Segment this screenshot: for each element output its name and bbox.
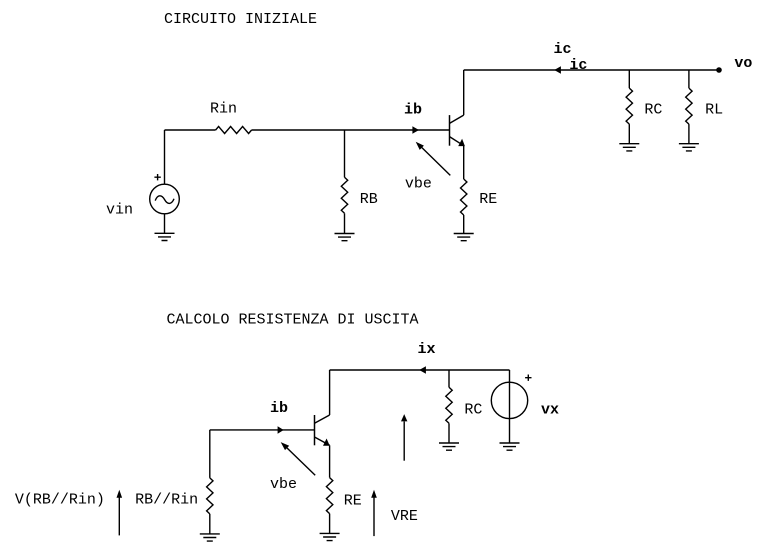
svg-text:CIRCUITO INIZIALE: CIRCUITO INIZIALE <box>164 11 317 28</box>
wire collector Q2 <box>329 370 331 415</box>
arrow ic <box>554 66 561 73</box>
ground RC2 <box>439 443 459 450</box>
svg-text:CALCOLO RESISTENZA DI USCITA: CALCOLO RESISTENZA DI USCITA <box>167 312 419 329</box>
arrow vbe Q1 <box>416 142 451 176</box>
resistor RE <box>461 179 467 215</box>
svg-text:RL: RL <box>705 102 723 119</box>
wire vin to Rin <box>165 129 216 131</box>
resistor RC <box>626 88 632 124</box>
ground vx <box>500 443 520 450</box>
wire RB top <box>344 130 346 177</box>
sine wave vin <box>155 196 174 204</box>
ground RB <box>335 234 355 241</box>
ground RE2 <box>320 533 340 540</box>
ground RE <box>454 234 474 241</box>
wire emitter Q1 <box>463 146 465 179</box>
svg-text:vbe: vbe <box>270 476 297 493</box>
wire collector top rail <box>464 69 719 71</box>
wire vin top vertical <box>164 130 166 184</box>
svg-text:vin: vin <box>106 202 133 219</box>
source vin <box>150 184 180 214</box>
svg-text:vo: vo <box>734 55 752 72</box>
ground vin <box>155 233 175 240</box>
source vx <box>491 382 527 418</box>
resistor RE2 <box>326 478 332 514</box>
svg-text:ic: ic <box>569 57 587 74</box>
arrow ix <box>419 366 426 373</box>
arrow V(RB//Rin) <box>117 490 123 536</box>
resistor RB//Rin <box>207 478 213 514</box>
wire vin bottom <box>164 214 166 234</box>
svg-text:RC: RC <box>644 102 662 119</box>
wire base Q2 <box>210 429 315 431</box>
wire RL top <box>688 70 690 88</box>
wire RB//Rin top <box>209 430 211 478</box>
resistor Rin <box>216 127 252 134</box>
svg-text:ix: ix <box>418 341 436 358</box>
arrow vce middle <box>401 414 407 461</box>
wire emitter Q2 <box>329 445 331 477</box>
arrow ib Q2 <box>278 426 284 433</box>
plus terminal vx <box>525 375 531 381</box>
wire RC2 top <box>448 370 450 387</box>
resistor RC2 <box>446 387 452 423</box>
wire RL bottom <box>688 124 690 144</box>
svg-text:V(RB//Rin): V(RB//Rin) <box>15 491 105 508</box>
svg-text:ib: ib <box>404 101 422 118</box>
wire RB//Rin bottom <box>209 514 211 534</box>
plus terminal vin <box>154 174 160 180</box>
svg-text:RB//Rin: RB//Rin <box>135 491 198 508</box>
arrow ib Q1 <box>412 126 419 133</box>
ground RB//Rin <box>200 534 220 541</box>
svg-text:RC: RC <box>464 401 482 418</box>
wire RB bottom <box>344 213 346 233</box>
svg-text:ib: ib <box>270 400 288 417</box>
arrow VRE <box>371 490 377 536</box>
arrow vbe Q2 <box>281 442 316 475</box>
svg-text:Rin: Rin <box>210 101 237 118</box>
wire vx vertical <box>509 370 511 443</box>
ground RC <box>619 144 639 151</box>
svg-text:VRE: VRE <box>391 508 418 525</box>
ground RL <box>679 144 699 151</box>
svg-text:RE: RE <box>479 191 497 208</box>
wire RC top <box>628 70 630 88</box>
resistor RL <box>686 88 692 124</box>
svg-text:RB: RB <box>360 191 378 208</box>
wire Rin to base Q1 <box>252 129 450 131</box>
svg-text:ic: ic <box>554 41 572 58</box>
node vo <box>716 67 722 73</box>
transistor Q1 <box>450 115 465 146</box>
svg-text:vx: vx <box>541 401 559 418</box>
wire RC bottom <box>628 124 630 144</box>
svg-text:vbe: vbe <box>405 176 432 193</box>
wire collector Q1 <box>463 70 465 115</box>
wire RE bottom <box>463 215 465 234</box>
wire top rail 2 <box>330 369 510 371</box>
svg-text:RE: RE <box>344 492 362 509</box>
wire RE2 bottom <box>329 514 331 534</box>
resistor RB <box>341 177 347 213</box>
transistor Q2 <box>315 415 330 446</box>
wire RC2 bottom <box>448 423 450 443</box>
